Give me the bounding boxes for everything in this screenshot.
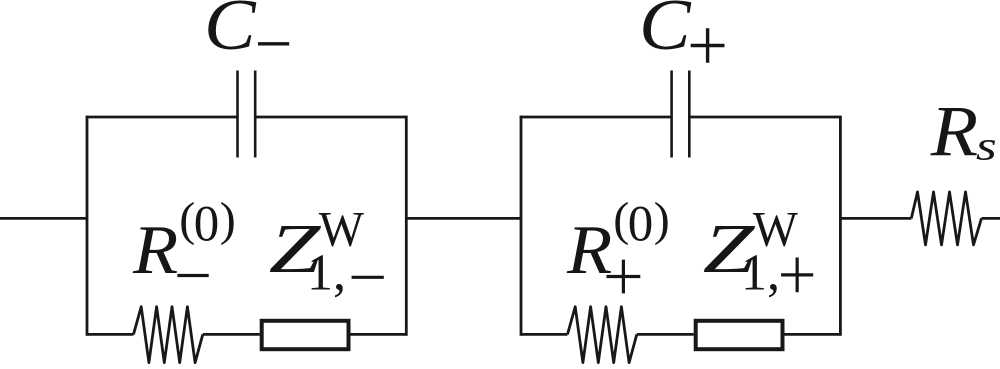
wire: resistor to warburg box (right block) — [637, 333, 694, 336]
wire: left block left side — [86, 116, 89, 336]
svg-text:C: C — [639, 0, 691, 65]
warburg element Z1,+ box — [696, 321, 783, 349]
svg-text:R: R — [566, 211, 612, 289]
svg-text:): ) — [654, 193, 670, 246]
label Z1,+W : subscript plus — [781, 258, 813, 293]
wire: left block bottom-left segment — [87, 333, 134, 336]
wire: warburg box to right block corner — [785, 333, 841, 336]
label R+(0) : subscript plus — [607, 260, 641, 294]
capacitor C+ plates — [672, 71, 690, 158]
label C- : subscript minus — [258, 42, 289, 45]
capacitor C- plates — [238, 71, 256, 158]
svg-text:0: 0 — [628, 196, 654, 252]
svg-text:): ) — [220, 193, 236, 246]
wire: right block top-left segment — [520, 116, 672, 119]
wire: right lead to Rs — [840, 217, 911, 220]
label R-(0) : subscript minus — [177, 274, 208, 277]
svg-text:0: 0 — [194, 196, 220, 252]
wire: right block top-right segment — [689, 116, 840, 119]
wire: middle link between blocks — [406, 217, 521, 220]
svg-text:1,: 1, — [307, 244, 346, 301]
svg-text:R: R — [132, 211, 178, 289]
wire: right block bottom-left segment — [521, 333, 568, 336]
svg-text:C: C — [204, 0, 256, 65]
label C+ : subscript plus — [691, 28, 725, 63]
resistor R-(0) zigzag — [134, 307, 203, 363]
wire: right block right side — [839, 116, 842, 336]
label Z1,-W : subscript minus — [352, 276, 384, 279]
wire: left lead — [0, 217, 87, 220]
wire: Rs to right edge — [982, 217, 1000, 220]
svg-text:R: R — [930, 91, 978, 171]
warburg element Z1,- box — [262, 321, 349, 349]
resistor R+(0) zigzag — [568, 307, 637, 363]
svg-text:s: s — [976, 124, 997, 169]
wire: warburg box to left block corner — [351, 333, 407, 336]
wire: left block top-left segment — [86, 116, 238, 119]
wire: left block top-right segment — [255, 116, 406, 119]
wire: left block right side — [405, 116, 408, 336]
svg-text:1,: 1, — [741, 244, 780, 301]
wire: resistor to warburg box — [203, 333, 260, 336]
wire: right block left side — [520, 116, 523, 336]
resistor Rs zigzag — [911, 192, 981, 245]
